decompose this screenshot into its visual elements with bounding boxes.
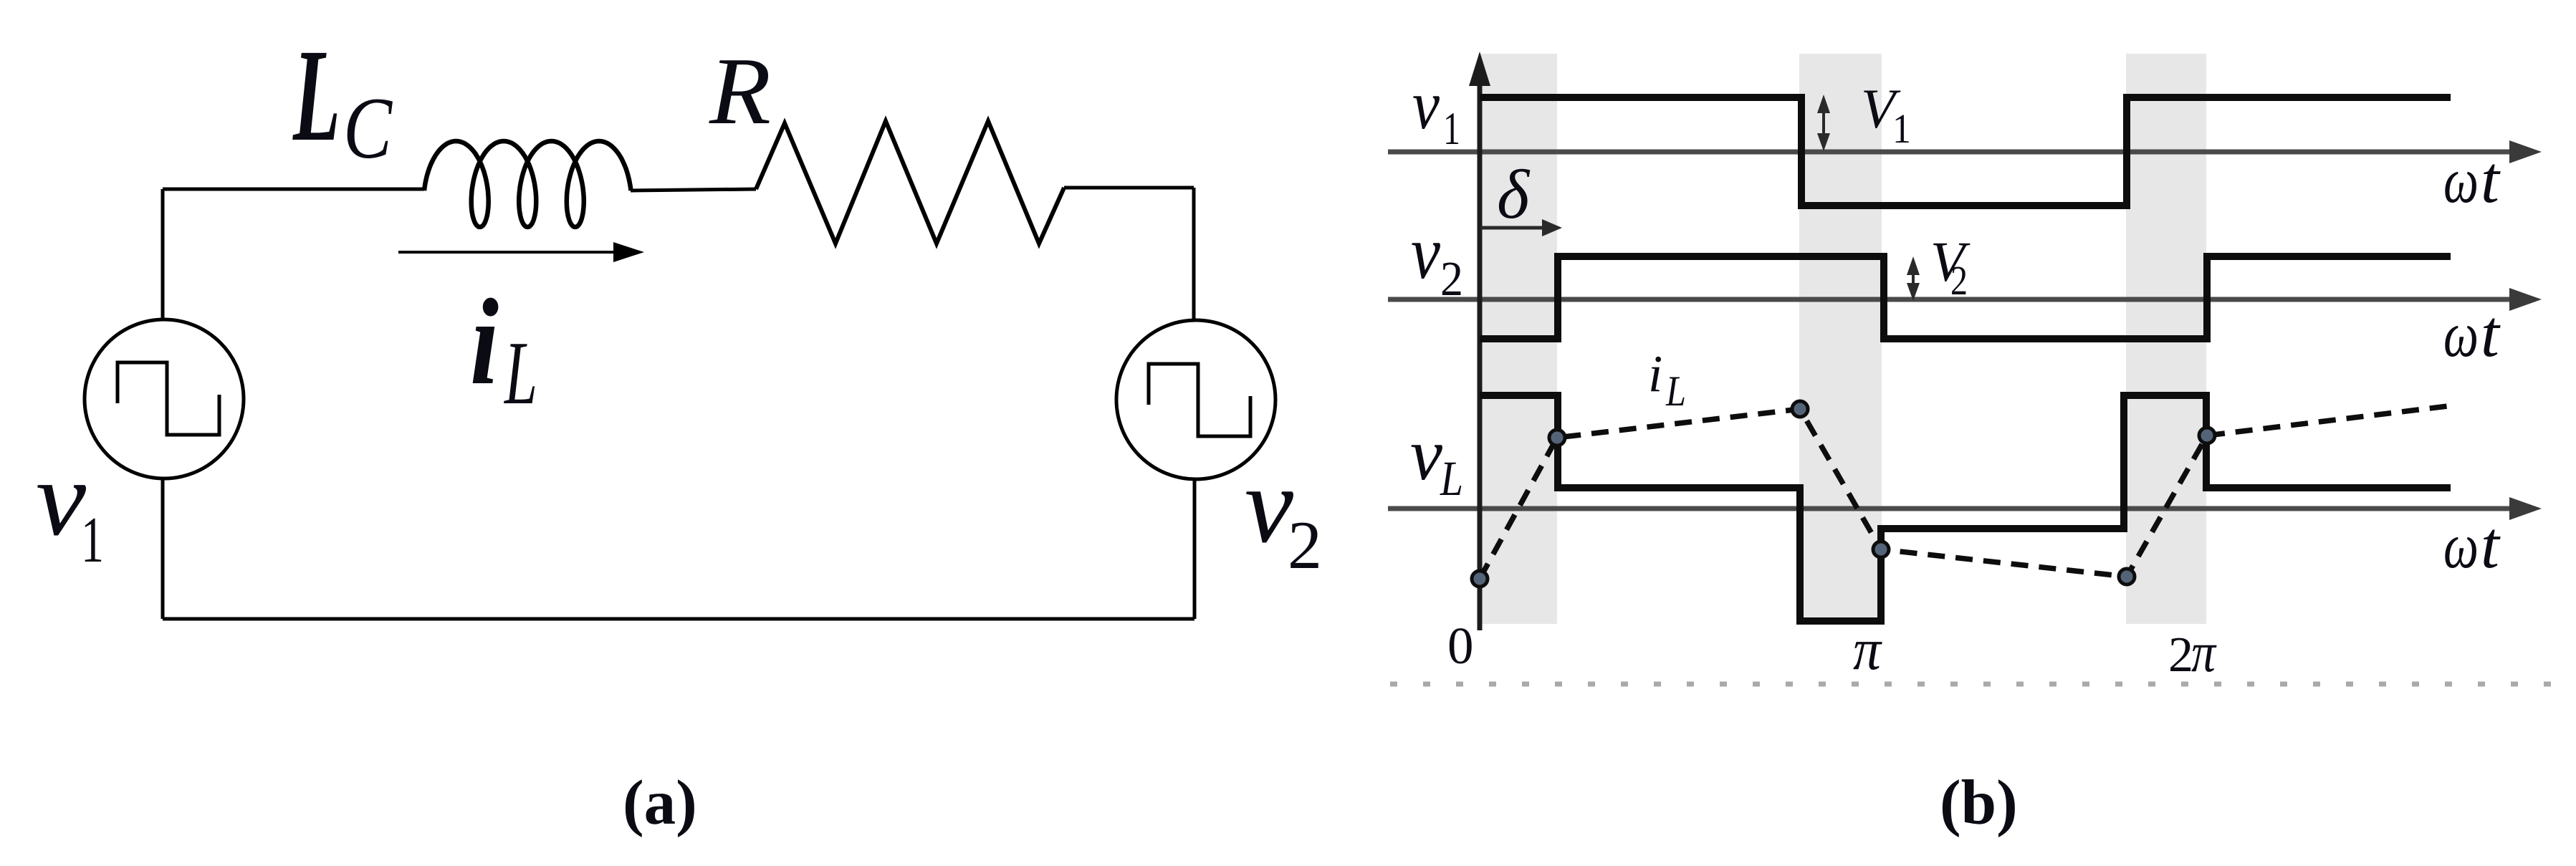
svg-text:v: v bbox=[1245, 445, 1294, 565]
axis arrowhead v2 bbox=[2509, 288, 2542, 311]
svg-text:π: π bbox=[2191, 622, 2217, 684]
axis arrowhead v1 bbox=[2509, 140, 2542, 163]
svg-text:ω: ω bbox=[2443, 145, 2479, 216]
svg-text:v: v bbox=[36, 439, 86, 558]
v2 waveform bbox=[1480, 256, 2451, 339]
svg-text:v: v bbox=[1411, 211, 1441, 294]
svg-text:L: L bbox=[1665, 367, 1686, 415]
svg-text:1: 1 bbox=[1892, 105, 1911, 152]
svg-text:L: L bbox=[504, 324, 537, 423]
wire right vertical lower bbox=[1193, 480, 1197, 619]
svg-text:L: L bbox=[292, 22, 340, 169]
svg-text:R: R bbox=[709, 38, 771, 144]
svg-text:C: C bbox=[343, 79, 393, 177]
iL marker 4 bbox=[2119, 569, 2135, 584]
svg-text:t: t bbox=[2481, 297, 2501, 371]
wire bottom horizontal bbox=[163, 617, 1194, 621]
svg-text:0: 0 bbox=[1447, 617, 1474, 675]
svg-text:t: t bbox=[2481, 509, 2501, 582]
wire right vertical upper bbox=[1192, 188, 1196, 320]
svg-text:π: π bbox=[1853, 616, 1882, 682]
vertical axis arrowhead bbox=[1469, 52, 1490, 86]
svg-text:2: 2 bbox=[1950, 257, 1968, 304]
wire left vertical lower bbox=[161, 478, 165, 619]
wire top-left horizontal bbox=[163, 188, 424, 191]
svg-text:1: 1 bbox=[1443, 103, 1460, 155]
svg-text:v: v bbox=[1412, 67, 1440, 144]
wire inductor-to-resistor bbox=[631, 189, 756, 191]
svg-text:ω: ω bbox=[2443, 511, 2479, 582]
svg-text:t: t bbox=[2481, 143, 2501, 217]
shaded band 1 bbox=[1480, 54, 1557, 624]
svg-text:(a): (a) bbox=[623, 768, 697, 838]
svg-text:1: 1 bbox=[81, 504, 104, 576]
iL marker 5 bbox=[2199, 428, 2215, 443]
wire left vertical upper bbox=[161, 189, 165, 319]
svg-text:i: i bbox=[470, 274, 499, 410]
svg-text:δ: δ bbox=[1497, 156, 1531, 233]
vertical axis bbox=[1478, 75, 1483, 630]
source v2 circle bbox=[1116, 320, 1275, 479]
svg-text:v: v bbox=[1410, 413, 1443, 496]
iL marker 2 bbox=[1792, 401, 1808, 417]
svg-text:2: 2 bbox=[1288, 507, 1322, 583]
inductor LC coil bbox=[424, 141, 631, 227]
shaded band 3 bbox=[2126, 54, 2206, 624]
source v1 circle bbox=[85, 319, 244, 478]
source v1 square-wave glyph bbox=[118, 362, 219, 435]
delta arrow bbox=[1480, 219, 1562, 236]
vL horizontal axis bbox=[1388, 506, 2515, 511]
resistor R zigzag bbox=[756, 121, 1064, 244]
svg-text:ω: ω bbox=[2443, 299, 2479, 370]
iL marker 3 bbox=[1873, 542, 1889, 557]
vL waveform bbox=[1480, 395, 2451, 621]
iL dashed current bbox=[1480, 405, 2453, 579]
bottom dotted line bbox=[1390, 682, 2574, 687]
svg-text:2: 2 bbox=[2168, 627, 2193, 683]
v2 horizontal axis bbox=[1388, 297, 2515, 302]
svg-text:2: 2 bbox=[1440, 251, 1463, 306]
axis arrowhead vL bbox=[2509, 497, 2542, 520]
svg-text:L: L bbox=[1440, 451, 1463, 506]
v1 waveform bbox=[1480, 97, 2451, 206]
iL marker 0 bbox=[1472, 571, 1488, 587]
svg-text:(b): (b) bbox=[1940, 768, 2018, 838]
shaded band 2 bbox=[1799, 54, 1882, 624]
v1 horizontal axis bbox=[1388, 150, 2515, 155]
current arrow iL bbox=[398, 242, 644, 262]
V1 measure arrow bbox=[1822, 102, 1825, 148]
iL marker 1 bbox=[1549, 430, 1565, 446]
V2 measure arrow bbox=[1912, 264, 1915, 295]
svg-text:i: i bbox=[1648, 345, 1662, 403]
wire resistor-to-corner bbox=[1064, 186, 1194, 190]
source v2 square-wave glyph bbox=[1149, 364, 1250, 436]
